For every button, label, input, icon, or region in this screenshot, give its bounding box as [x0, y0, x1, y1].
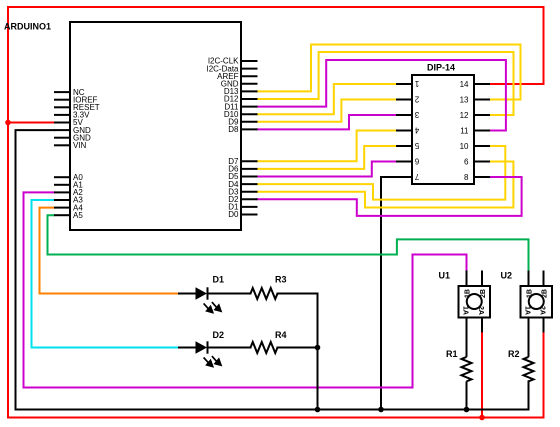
pin U1 2A stub	[481, 318, 483, 333]
pin AREF stub	[241, 75, 258, 77]
pin A5 stub	[54, 214, 70, 216]
svg-text:9: 9	[464, 157, 469, 166]
pin A4 stub	[54, 207, 70, 209]
wire 5V net red border left	[7, 7, 9, 418]
svg-text:R1: R1	[446, 349, 458, 359]
svg-text:D2: D2	[213, 330, 225, 340]
wire 5V bottom bus	[8, 417, 544, 419]
resistor R3	[251, 288, 278, 299]
wire 5V net red border top	[8, 6, 544, 8]
diode D2 LED	[196, 341, 222, 366]
pin D10 stub	[241, 113, 258, 115]
pin D9 stub	[241, 121, 258, 123]
svg-text:10: 10	[460, 142, 469, 151]
pin 5V stub	[54, 122, 70, 124]
pin 3.3V stub	[54, 114, 70, 116]
wire D3 to DIP pin 9	[258, 162, 514, 208]
pin D8 stub	[241, 128, 258, 130]
pin 11 stub	[474, 130, 490, 132]
IC DIP-14 body	[412, 75, 474, 184]
pin I2C-CLK stub	[241, 60, 258, 62]
pin A3 stub	[54, 199, 70, 201]
pin A2 stub	[54, 191, 70, 193]
IC ARDUINO1 body	[70, 22, 241, 230]
wire D1 cathode to R3	[208, 293, 251, 295]
resistor R2	[524, 357, 534, 381]
pin 1 stub	[396, 83, 412, 85]
pin D3 stub	[241, 191, 258, 193]
svg-text:2: 2	[414, 95, 419, 104]
resistor R1	[462, 357, 472, 410]
pin 14 stub	[474, 83, 490, 85]
wire 5V riser to U1 pin 2A	[481, 333, 483, 418]
pin NC stub	[54, 91, 70, 93]
wire A2 to U1 pin 1B	[24, 192, 467, 387]
pin RESET stub	[54, 106, 70, 108]
pin U2 1B stub	[528, 271, 530, 287]
svg-text:1A: 1A	[524, 306, 531, 315]
svg-text:DIP-14: DIP-14	[427, 63, 455, 73]
wire R3 to return node	[278, 293, 318, 295]
pin 7 stub	[396, 176, 412, 178]
wire D13 to DIP pin 13	[258, 45, 521, 100]
svg-text:U2: U2	[501, 271, 513, 281]
svg-text:14: 14	[460, 80, 469, 89]
pin D6 stub	[241, 168, 258, 170]
wire D8 to DIP pin 3	[258, 115, 397, 129]
pin D11 stub	[241, 106, 258, 108]
pin U2 1A stub	[528, 318, 530, 357]
pin 8 stub	[474, 176, 490, 178]
pin GND right stub	[241, 83, 258, 85]
wire 5V riser to U2 pin 2A	[543, 333, 545, 418]
svg-text:D1: D1	[213, 275, 225, 285]
diode D1 LED	[196, 287, 222, 312]
wire D1 row anode segment	[179, 293, 197, 295]
pin D0 stub	[241, 214, 258, 216]
pin 10 stub	[474, 145, 490, 147]
svg-text:4: 4	[414, 126, 419, 135]
resistor R4	[251, 342, 278, 353]
node GND junction LED return on bus	[315, 407, 321, 413]
pin VIN stub	[54, 144, 70, 146]
svg-text:ARDUINO1: ARDUINO1	[4, 22, 51, 32]
svg-text:1A: 1A	[462, 306, 469, 315]
pin D2 stub	[241, 198, 258, 200]
pin A0 stub	[54, 176, 70, 178]
svg-text:R2: R2	[508, 349, 520, 359]
trimmer U1 body	[459, 271, 491, 357]
svg-text:R3: R3	[275, 275, 287, 285]
pin U2 2A stub	[543, 318, 545, 333]
pin GND2 stub	[54, 137, 70, 139]
pin D13 stub	[241, 90, 258, 92]
svg-text:D8: D8	[228, 125, 239, 134]
wire A5 to U2 pin 1B	[48, 215, 529, 270]
pin 12 stub	[474, 114, 490, 116]
wire D4 to DIP pin 10	[258, 146, 506, 200]
pin I2C-Data stub	[241, 68, 258, 70]
node GND junction R1 on bus	[464, 407, 470, 413]
svg-text:7: 7	[414, 172, 419, 181]
wire D12 to DIP pin 12	[258, 52, 514, 115]
wire D2 to DIP pin 8	[258, 177, 522, 216]
pin D12 stub	[241, 98, 258, 100]
node 5V junction U1 riser on bottom bus	[479, 415, 485, 421]
wire D9 to DIP pin 2	[258, 100, 397, 122]
svg-text:R4: R4	[275, 330, 287, 340]
wire A3 to LED D2	[32, 200, 180, 348]
wire D10 to DIP pin 1	[258, 84, 397, 114]
node GND junction DIP pin7 wire on bus	[378, 407, 384, 413]
svg-text:1: 1	[414, 79, 419, 88]
pin U1 2B stub	[481, 271, 483, 287]
wire DIP pin 7 to GND bus	[381, 177, 396, 410]
trimmer U2 body	[521, 271, 553, 357]
wire D11 to DIP pin 11	[258, 60, 506, 131]
wire LED return vertical to GND bus	[317, 294, 319, 410]
pin D4 stub	[241, 183, 258, 185]
svg-text:D0: D0	[228, 210, 239, 219]
pin 5 stub	[396, 145, 412, 147]
node junction R4 joins LED return	[315, 345, 321, 351]
svg-text:A5: A5	[73, 211, 83, 220]
svg-text:13: 13	[460, 96, 469, 105]
pin IOREF stub	[54, 99, 70, 101]
wire D2 cathode to R4	[208, 347, 251, 349]
pin D1 stub	[241, 206, 258, 208]
pin A1 stub	[54, 184, 70, 186]
svg-text:8: 8	[464, 173, 469, 182]
svg-text:VIN: VIN	[73, 141, 87, 150]
wire 5V feed to Arduino 5V pin	[8, 122, 54, 124]
pin 9 stub	[474, 161, 490, 163]
wire D2 row anode segment	[179, 347, 197, 349]
svg-text:U1: U1	[439, 271, 451, 281]
wire R4 to return node	[278, 347, 318, 349]
node 5V junction at Arduino 5V tap	[5, 120, 11, 126]
pin U2 2B stub	[543, 271, 545, 287]
pin U1 1A stub	[466, 318, 468, 357]
wire A4 to LED D1	[40, 208, 180, 294]
pin 4 stub	[396, 130, 412, 132]
wire D6 to DIP pin 5	[258, 146, 397, 169]
wire D5 to DIP pin 6	[258, 162, 397, 177]
wire D7 to DIP pin 4	[258, 131, 397, 162]
svg-text:11: 11	[460, 127, 469, 136]
svg-text:5: 5	[414, 141, 419, 150]
svg-text:6: 6	[414, 157, 419, 166]
pin 6 stub	[396, 161, 412, 163]
pin D5 stub	[241, 176, 258, 178]
pin 2 stub	[396, 99, 412, 101]
pin 13 stub	[474, 99, 490, 101]
wire GND net from Arduino GND pin to bottom bus	[16, 130, 529, 409]
wire 5V net red right drop to DIP pin 14	[490, 7, 544, 84]
pin D7 stub	[241, 160, 258, 162]
svg-text:3: 3	[414, 110, 419, 119]
svg-text:12: 12	[460, 111, 469, 120]
pin GND stub	[54, 129, 70, 131]
pin 3 stub	[396, 114, 412, 116]
pin U1 1B stub	[466, 271, 468, 287]
